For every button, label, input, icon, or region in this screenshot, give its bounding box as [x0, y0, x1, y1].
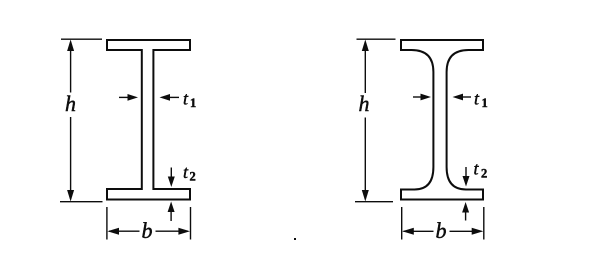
svg-text:b: b	[142, 218, 153, 243]
svg-text:t: t	[183, 162, 189, 182]
label t1 (left)	[183, 89, 196, 111]
svg-text:2: 2	[190, 170, 196, 184]
dimension h (right): vertical line with arrowheads	[362, 40, 369, 202]
dimension b (left): extension lines	[107, 207, 191, 240]
label b (left)	[142, 218, 153, 243]
left I-beam outline	[107, 40, 190, 200]
label t2 (left)	[183, 162, 196, 184]
label h (right)	[359, 91, 370, 116]
label t2 (right)	[474, 159, 488, 181]
svg-text:t: t	[474, 159, 480, 179]
t2 arrows (right figure)	[462, 167, 469, 221]
t2 arrows (left figure)	[168, 168, 175, 222]
dimension h (left): vertical line with arrowheads	[67, 40, 74, 202]
svg-text:t: t	[474, 89, 480, 109]
dimension h (left): extension line top	[61, 38, 102, 40]
svg-text:h: h	[359, 91, 370, 116]
stray period mark between figures	[294, 238, 296, 240]
svg-text:1: 1	[190, 96, 196, 110]
label b (right)	[436, 218, 447, 243]
dimension b (right): horizontal line with arrowheads	[402, 228, 483, 235]
dimension h (left): extension line bottom	[60, 201, 103, 203]
t1 arrows (left figure)	[119, 94, 179, 101]
svg-text:b: b	[436, 218, 447, 243]
dimension h (right): extension line bottom	[355, 201, 393, 203]
label h (left)	[65, 91, 76, 116]
right I-beam outline (rolled section with fillets)	[401, 40, 483, 200]
svg-text:t: t	[183, 89, 189, 109]
label t1 (right)	[474, 89, 488, 111]
dimension b (right): extension lines	[402, 207, 484, 240]
svg-text:2: 2	[481, 167, 487, 181]
dimension h (right): extension line top	[357, 38, 396, 40]
dimension b (left): horizontal line with arrowheads	[107, 228, 190, 235]
svg-text:1: 1	[482, 96, 488, 110]
svg-text:h: h	[65, 91, 76, 116]
t1 arrows (right figure)	[413, 94, 471, 101]
